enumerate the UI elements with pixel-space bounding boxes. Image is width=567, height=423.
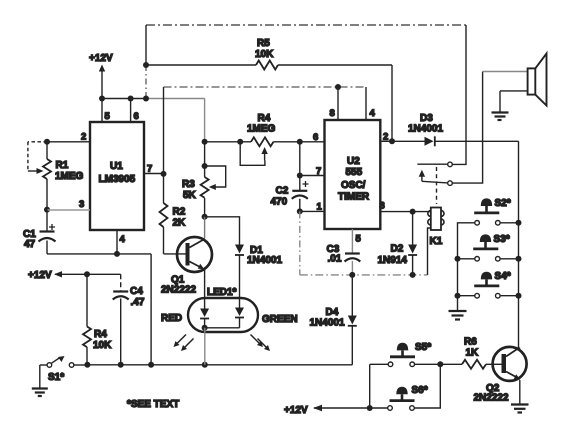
wire U2 pin1: [297, 202, 325, 215]
LED red: [161, 298, 209, 328]
svg-text:1N4001: 1N4001: [310, 318, 345, 329]
svg-text:1N4001: 1N4001: [247, 255, 282, 266]
svg-text:R5: R5: [257, 38, 270, 49]
pin number 2 U1: [81, 132, 86, 143]
wire U1 pin7: [144, 173, 164, 175]
relay coil K1: [428, 208, 444, 248]
node bus x151: [148, 362, 154, 368]
wire R6 to Q2 base: [486, 363, 502, 365]
svg-text:2: 2: [383, 132, 388, 143]
LED light arrows red: [174, 335, 194, 352]
svg-text:470: 470: [271, 197, 288, 208]
wire x121 corner down to C4: [120, 274, 122, 291]
svg-text:2: 2: [81, 132, 86, 143]
wire LED to bus: [204, 328, 206, 365]
svg-text:10K: 10K: [93, 340, 112, 351]
wire top rail y25: [146, 24, 466, 26]
diode D2 1N914: [378, 212, 418, 275]
svg-text:1MEG: 1MEG: [55, 171, 84, 182]
svg-text:LM3905: LM3905: [99, 174, 136, 185]
wire U2 pin2: [380, 132, 392, 143]
wire y87 R2 top to U2 pins: [164, 87, 367, 100]
LED1 stadium outline: [188, 287, 258, 332]
svg-text:3: 3: [79, 199, 84, 210]
svg-text:2K: 2K: [173, 218, 187, 229]
ground at switch rail: [449, 311, 467, 320]
node R2 pin7: [161, 171, 167, 177]
wire C3 to bus: [351, 261, 353, 275]
capacitor C1: [23, 224, 56, 250]
svg-text:7: 7: [147, 164, 152, 175]
pushbutton S3: [473, 234, 510, 261]
svg-text:K1: K1: [430, 236, 443, 247]
node +12V R4 junction: [84, 271, 90, 277]
pin number 7 U1: [147, 164, 152, 175]
svg-text:8: 8: [330, 108, 335, 119]
pin number 3 U1: [79, 199, 84, 210]
svg-text:S4*: S4*: [495, 271, 511, 282]
wire S5 branch corner: [370, 364, 389, 408]
wire S3 right to rail: [500, 256, 521, 262]
wire bottom bus y364: [74, 364, 352, 366]
node R4 left: [202, 139, 208, 145]
node R4 bracket left: [237, 139, 243, 145]
svg-text:+12V: +12V: [28, 270, 52, 281]
transistor Q1 2N2222: [161, 237, 212, 298]
node pin2 D3: [389, 138, 395, 144]
wire S2 left to rail: [458, 223, 475, 310]
power +12V top left: [89, 53, 113, 99]
svg-text:D3: D3: [420, 113, 433, 124]
svg-text:4: 4: [370, 108, 376, 119]
power +12V bottom arrow: [284, 405, 388, 416]
svg-text:*SEE TEXT: *SEE TEXT: [127, 399, 179, 410]
pushbutton S5: [388, 342, 431, 367]
node pin3 D2 K1: [410, 209, 416, 215]
LED light arrows green: [251, 335, 271, 352]
svg-text:S6*: S6*: [412, 385, 428, 396]
svg-text:R2: R2: [173, 207, 186, 218]
pin number 6 U2: [313, 132, 318, 143]
wire U1 pin4: [116, 230, 118, 254]
wire y142 R4 row: [205, 141, 325, 143]
wire x392 down to pin2 node: [391, 65, 393, 141]
wire U1 pin2: [47, 141, 90, 143]
svg-text:C2: C2: [276, 186, 289, 197]
potentiometer R3 5K: [182, 177, 209, 217]
ground at S1: [32, 389, 48, 397]
wire bus y275 dashdot: [300, 274, 428, 276]
node pin5 top: [99, 96, 105, 102]
wire R3 bottom to D1: [205, 217, 240, 245]
capacitor C3: [327, 244, 361, 265]
wire R5 rail y65: [146, 64, 392, 66]
label R5 value: [255, 38, 274, 60]
wire y254 C1 to corner x151: [47, 253, 151, 255]
ground at speaker: [492, 113, 509, 121]
IC U1 LM3905: [90, 122, 144, 230]
wire contact to top rail: [452, 25, 466, 164]
svg-text:47: 47: [24, 239, 36, 250]
svg-text:2N2222: 2N2222: [161, 285, 196, 296]
svg-text:S3*: S3*: [494, 234, 510, 245]
node x146 y99: [143, 96, 149, 102]
svg-text:RED: RED: [161, 313, 182, 324]
pin number 6 U1: [134, 111, 139, 122]
resistor R4 10K: [83, 327, 112, 365]
node LED common: [202, 325, 240, 331]
svg-text:C4: C4: [130, 286, 143, 297]
node bus D2: [410, 272, 416, 278]
switch S1: [40, 356, 74, 388]
resistor R1 (photoresistor with arrow): [43, 142, 51, 210]
svg-text:LED1*: LED1*: [207, 287, 237, 298]
resistor R5: [256, 61, 278, 70]
wire bus up to relay coil bottom: [428, 228, 431, 275]
R1 wiper dashed bracket and arrow: [28, 142, 47, 174]
svg-text:+12V: +12V: [89, 53, 113, 64]
relay contact pole with arrow: [419, 170, 453, 186]
svg-text:S1*: S1*: [48, 372, 64, 383]
wire vertical x146: [145, 25, 147, 99]
wire U1 pin5: [101, 99, 103, 123]
svg-text:R6: R6: [464, 337, 477, 348]
wire S6 right up to S5 node: [415, 364, 441, 408]
node pin4 y254: [114, 251, 120, 257]
power +12V mid left arrow: [28, 270, 121, 281]
wire C4 to bus: [120, 299, 122, 365]
wire right rail x518: [518, 141, 520, 350]
node bus LED: [202, 362, 208, 368]
svg-text:GREEN: GREEN: [262, 314, 298, 325]
svg-text:D4: D4: [326, 307, 339, 318]
wire U2 pin8: [330, 84, 342, 120]
svg-text:7: 7: [316, 166, 321, 177]
wire U2 pin5 and C3: [352, 229, 361, 253]
wire S2 right to rail: [500, 220, 521, 226]
pin number 5 U1: [105, 111, 111, 122]
wire C2 bottom dashdot to bus: [299, 199, 301, 275]
note see text: [127, 399, 179, 410]
wire R3 top from node: [204, 142, 206, 177]
node R3 bracket top: [202, 163, 208, 169]
node bus C4: [118, 362, 124, 368]
pushbutton S2: [474, 198, 511, 225]
svg-text:TIMER: TIMER: [338, 192, 370, 203]
pushbutton S4: [474, 271, 511, 298]
capacitor C4: [113, 286, 145, 308]
svg-text:OSC/: OSC/: [341, 180, 366, 191]
svg-text:+12V: +12V: [284, 405, 308, 416]
wire S4 right to rail: [500, 293, 521, 299]
svg-text:5: 5: [105, 111, 111, 122]
wire S5 right to node: [415, 361, 463, 367]
svg-text:6: 6: [313, 132, 318, 143]
svg-text:5: 5: [356, 234, 362, 245]
svg-text:1MEG: 1MEG: [247, 124, 276, 135]
wire U1 pin6: [130, 99, 132, 123]
svg-text:1: 1: [317, 202, 323, 213]
label R1 value: [55, 160, 84, 182]
wire C1 bottom to y254: [46, 241, 48, 254]
svg-text:555: 555: [346, 167, 363, 178]
svg-text:R4: R4: [94, 329, 107, 340]
svg-text:10K: 10K: [255, 49, 274, 60]
IC U2 555: [325, 120, 381, 229]
wire +12V rail y99: [102, 98, 205, 100]
wire R1 node to C1: [46, 210, 48, 231]
svg-text:.47: .47: [131, 297, 145, 308]
wire S3 left to rail: [455, 256, 475, 262]
wire U2 pin4: [366, 87, 376, 120]
svg-text:5K: 5K: [183, 190, 197, 201]
potentiometer R4 1MEG: [247, 113, 276, 146]
node bus C3: [349, 272, 355, 278]
wire Q1 collector: [204, 217, 206, 238]
ground at Q2: [511, 405, 529, 413]
svg-text:2N2222: 2N2222: [474, 393, 509, 404]
wire pin3 node to coil: [413, 211, 431, 213]
speaker LS1: [483, 54, 547, 113]
LED green: [235, 298, 298, 328]
svg-text:3: 3: [380, 201, 385, 212]
diode D3 1N4001: [392, 113, 519, 146]
svg-text:1N4001: 1N4001: [408, 124, 443, 135]
wire U1 pin3: [47, 209, 90, 211]
node C2 top / R4 right: [297, 139, 303, 145]
relay mechanical dashed link: [436, 167, 438, 204]
svg-text:R4: R4: [258, 113, 271, 124]
svg-text:R1: R1: [56, 160, 69, 171]
pin number 4 U1: [120, 234, 126, 245]
node pin6 top: [128, 96, 134, 102]
wire x87 down to R4: [86, 274, 88, 326]
pushbutton S6: [388, 385, 428, 410]
resistor R6 1K: [462, 337, 486, 369]
svg-text:1K: 1K: [466, 348, 480, 359]
wire Q2 collector up: [519, 348, 521, 351]
node R3 bottom: [202, 214, 208, 220]
wire Q1 base from R2: [164, 253, 186, 255]
wire pole to speaker: [452, 72, 482, 184]
svg-text:S2*: S2*: [495, 198, 511, 209]
svg-text:1N914: 1N914: [378, 255, 408, 266]
svg-text:.01: .01: [328, 254, 342, 265]
wire U2 pin3: [380, 201, 413, 212]
relay contact fixed: [417, 162, 452, 167]
node x146 y65: [143, 62, 149, 68]
svg-text:R3: R3: [182, 179, 195, 190]
svg-text:6: 6: [134, 111, 139, 122]
svg-text:4: 4: [120, 234, 126, 245]
svg-text:U1: U1: [110, 161, 123, 172]
R3 wiper bracket: [205, 166, 226, 190]
wire U2 pin7: [297, 166, 325, 179]
node R1 top: [44, 139, 50, 145]
transistor Q2 2N2222: [474, 347, 527, 404]
wire rail to R4/R3 x204: [204, 99, 206, 142]
diode D1 1N4001: [235, 245, 282, 299]
node bus R4: [84, 362, 90, 368]
resistor R2: [160, 100, 187, 254]
wire S4 left to rail: [455, 293, 475, 299]
svg-text:D2: D2: [391, 244, 404, 255]
capacitor C2: [271, 142, 309, 208]
svg-text:U2: U2: [347, 156, 360, 167]
R4 wiper bracket: [240, 142, 268, 166]
node R1 bottom: [44, 207, 50, 213]
diode D4 1N4001: [310, 275, 357, 365]
svg-text:S5*: S5*: [415, 342, 431, 353]
wire x151 down to bottom bus: [150, 254, 152, 365]
